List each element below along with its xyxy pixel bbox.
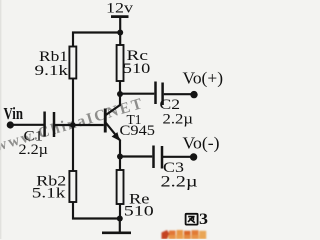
wire Rb2 bottom (72, 202, 74, 220)
wire C1 to node B (55, 124, 73, 126)
wire ground stub (119, 219, 121, 233)
resistor Re (117, 170, 124, 204)
capacitor C1 (45, 112, 54, 138)
wire emitter to node E (119, 140, 121, 157)
wire Rc top (119, 33, 121, 46)
resistor Rc (117, 45, 124, 81)
wire Rb1 top (72, 32, 74, 48)
wire base (73, 124, 104, 126)
svg-text:2.2µ: 2.2µ (161, 174, 198, 191)
left scan edge (0, 0, 1, 239)
wire 12v stub (119, 17, 121, 33)
wire emitter node to C3 (120, 155, 152, 157)
terminal Vo- (190, 153, 197, 160)
wire C3 to Vo- (163, 156, 191, 158)
svg-text:510: 510 (124, 204, 154, 220)
node top junction (117, 30, 123, 36)
transistor Q1 base bar (104, 109, 107, 133)
transistor Q1 emitter arrow (112, 132, 120, 141)
watermark orange logo (162, 230, 207, 239)
svg-text:Vin: Vin (4, 104, 24, 123)
wire top rail (72, 31, 120, 33)
svg-text:9.1k: 9.1k (35, 63, 69, 79)
node bottom junction (117, 216, 123, 222)
figure label tu 3 (186, 214, 198, 225)
svg-text:Vo(-): Vo(-) (183, 134, 220, 153)
terminal Vin (7, 121, 14, 128)
svg-text:C945: C945 (120, 123, 156, 139)
node collector junction (117, 91, 123, 97)
wire Vin to C1 (10, 124, 43, 126)
power terminal bar (111, 15, 129, 18)
svg-text:Vo(+): Vo(+) (183, 68, 224, 87)
wire collector (119, 94, 121, 106)
node B junction (70, 122, 76, 128)
resistor Rb2 (69, 171, 76, 202)
watermark www.ChinaICNET (0, 95, 146, 155)
capacitor C2 (156, 82, 163, 106)
transistor Q1 emitter lead (106, 123, 121, 141)
wire collector node to C2 (120, 93, 154, 95)
svg-text:2.2µ: 2.2µ (163, 112, 194, 128)
wire node E to Re (119, 157, 121, 171)
wire Re bottom (119, 204, 121, 220)
wire Rc to collector node (119, 81, 121, 94)
transistor Q1 collector lead (106, 105, 121, 115)
wire bottom rail (72, 217, 120, 219)
svg-text:3: 3 (199, 211, 208, 228)
terminal Vo+ (190, 91, 197, 98)
resistor Rb1 (69, 47, 76, 79)
node emitter junction (117, 154, 123, 160)
svg-text:510: 510 (123, 61, 151, 77)
capacitor C3 (154, 146, 163, 169)
wire C2 to Vo+ (164, 93, 191, 95)
ground (102, 231, 131, 234)
svg-text:2.2µ: 2.2µ (19, 142, 49, 158)
svg-text:12v: 12v (106, 1, 134, 17)
svg-text:5.1k: 5.1k (32, 186, 66, 202)
wire Rb1 to node B (72, 79, 74, 126)
wire node B to Rb2 (72, 125, 74, 172)
